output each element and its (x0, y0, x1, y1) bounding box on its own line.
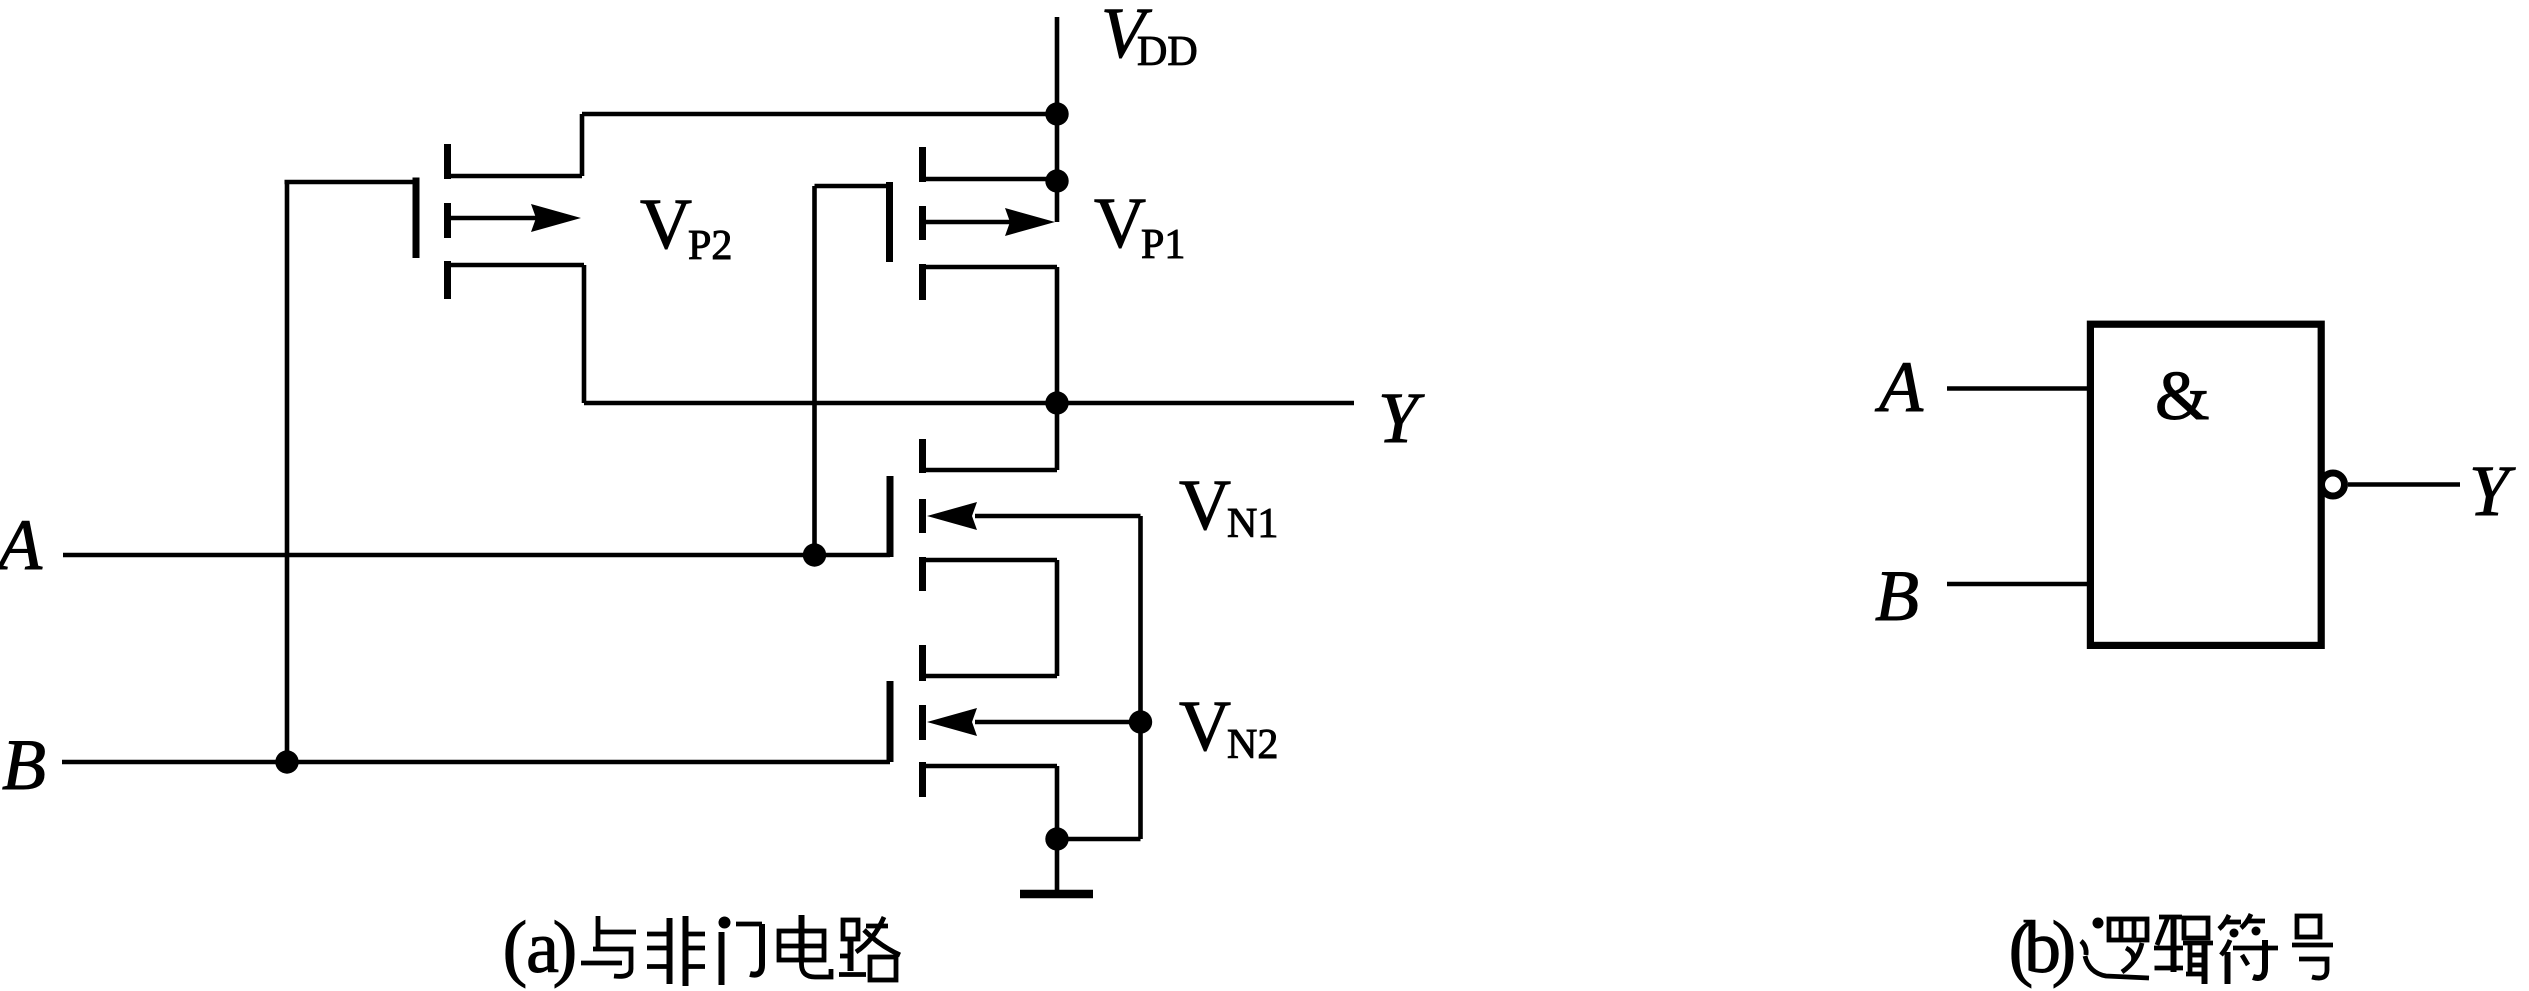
svg-text:V: V (1179, 686, 1231, 766)
svg-text:A: A (1875, 347, 1924, 427)
svg-text:V: V (1179, 465, 1231, 545)
svg-text:&: & (2155, 358, 2209, 435)
svg-text:): ) (2052, 907, 2077, 989)
svg-text:N1: N1 (1227, 501, 1278, 547)
svg-text:V: V (1094, 183, 1146, 263)
svg-text:Y: Y (2469, 451, 2516, 531)
svg-text:P2: P2 (688, 223, 732, 269)
svg-text:DD: DD (1137, 29, 1198, 75)
svg-text:(: ( (503, 907, 528, 989)
svg-text:P1: P1 (1141, 222, 1185, 268)
svg-text:Y: Y (1378, 378, 1425, 458)
svg-text:B: B (2, 725, 46, 805)
svg-text:): ) (553, 907, 578, 989)
svg-text:B: B (1875, 556, 1919, 636)
svg-text:N2: N2 (1227, 722, 1278, 768)
svg-text:A: A (0, 505, 43, 585)
svg-text:V: V (640, 184, 692, 264)
